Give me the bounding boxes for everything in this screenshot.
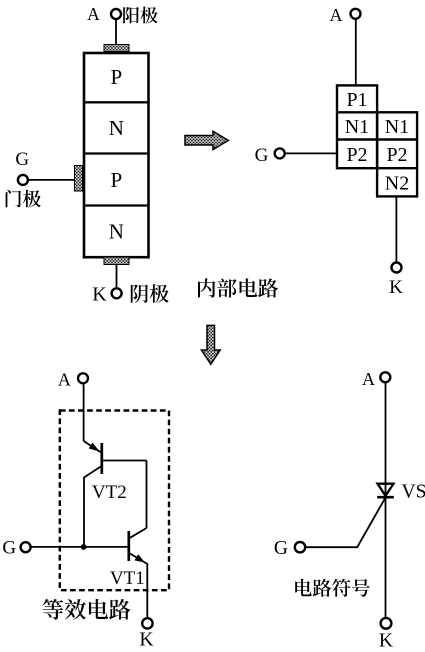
- svg-text:A: A: [330, 5, 343, 25]
- svg-text:N: N: [109, 116, 124, 140]
- svg-text:N2: N2: [385, 173, 409, 195]
- svg-text:VT2: VT2: [92, 482, 127, 503]
- svg-text:K: K: [379, 630, 393, 651]
- svg-text:VT1: VT1: [110, 568, 145, 589]
- svg-text:N1: N1: [385, 116, 409, 138]
- svg-text:A: A: [362, 369, 375, 389]
- svg-text:P2: P2: [346, 144, 367, 166]
- svg-text:G: G: [274, 538, 288, 559]
- svg-text:P1: P1: [346, 89, 367, 111]
- svg-text:P: P: [110, 65, 122, 89]
- svg-text:G: G: [2, 538, 16, 559]
- svg-text:G: G: [15, 149, 29, 170]
- svg-text:K: K: [92, 284, 107, 306]
- svg-text:A: A: [87, 4, 100, 24]
- svg-text:P2: P2: [386, 144, 407, 166]
- svg-text:N1: N1: [345, 116, 369, 138]
- svg-text:K: K: [389, 277, 403, 298]
- svg-text:K: K: [139, 629, 153, 650]
- svg-text:G: G: [255, 145, 269, 166]
- svg-text:A: A: [58, 369, 71, 389]
- svg-text:P: P: [110, 168, 122, 192]
- svg-text:VS: VS: [402, 482, 425, 503]
- svg-text:N: N: [109, 220, 124, 244]
